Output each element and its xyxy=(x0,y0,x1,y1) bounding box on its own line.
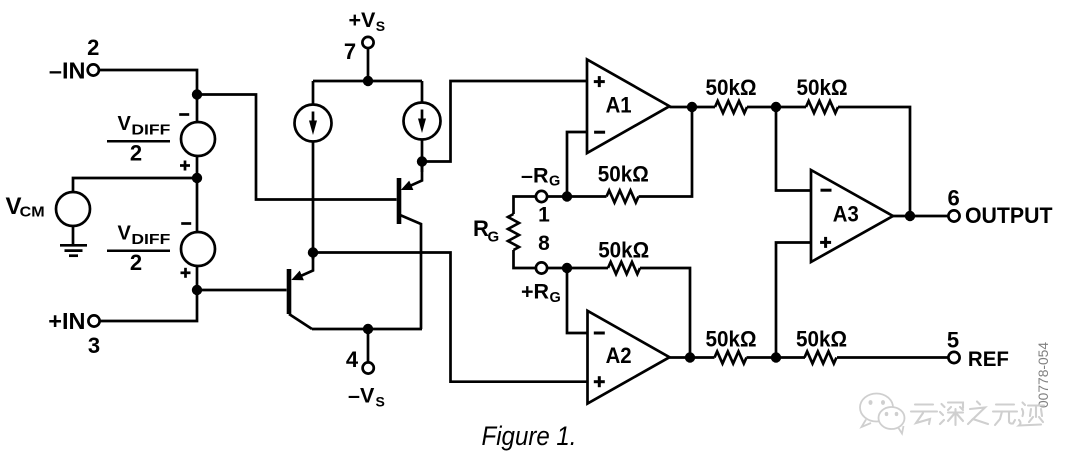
svg-text:+IN: +IN xyxy=(48,308,85,334)
svg-text:DIFF: DIFF xyxy=(131,231,170,248)
svg-text:A1: A1 xyxy=(606,93,632,118)
svg-text:1: 1 xyxy=(538,204,550,227)
svg-text:50kΩ: 50kΩ xyxy=(706,327,757,352)
svg-text:50kΩ: 50kΩ xyxy=(706,75,757,100)
svg-text:REF: REF xyxy=(968,348,1009,371)
svg-text:50kΩ: 50kΩ xyxy=(796,327,847,352)
svg-text:7: 7 xyxy=(344,39,356,64)
svg-text:50kΩ: 50kΩ xyxy=(797,75,848,100)
svg-text:2: 2 xyxy=(87,35,99,60)
svg-text:+R: +R xyxy=(521,280,550,304)
svg-text:6: 6 xyxy=(947,186,959,211)
svg-text:8: 8 xyxy=(538,232,550,255)
svg-text:G: G xyxy=(550,290,561,306)
svg-text:S: S xyxy=(376,394,385,410)
svg-text:A3: A3 xyxy=(833,202,859,227)
svg-text:A2: A2 xyxy=(606,343,632,368)
svg-text:DIFF: DIFF xyxy=(131,122,170,139)
svg-text:4: 4 xyxy=(346,347,359,372)
svg-text:V: V xyxy=(118,223,132,245)
svg-text:S: S xyxy=(376,18,385,34)
svg-text:5: 5 xyxy=(947,327,959,352)
svg-text:+V: +V xyxy=(349,8,377,32)
svg-text:2: 2 xyxy=(130,250,142,275)
svg-text:Figure 1.: Figure 1. xyxy=(482,421,577,451)
svg-text:2: 2 xyxy=(130,141,142,166)
svg-text:G: G xyxy=(488,228,500,245)
svg-text:–R: –R xyxy=(521,163,549,187)
svg-text:50kΩ: 50kΩ xyxy=(598,162,649,187)
svg-text:CM: CM xyxy=(20,204,45,221)
svg-text:50kΩ: 50kΩ xyxy=(598,237,649,262)
svg-text:G: G xyxy=(549,174,560,190)
svg-text:V: V xyxy=(118,113,132,135)
svg-text:00778-054: 00778-054 xyxy=(1036,341,1051,408)
svg-text:–IN: –IN xyxy=(49,57,86,83)
svg-text:OUTPUT: OUTPUT xyxy=(965,203,1053,228)
svg-text:–V: –V xyxy=(348,384,375,408)
svg-text:3: 3 xyxy=(88,333,100,358)
